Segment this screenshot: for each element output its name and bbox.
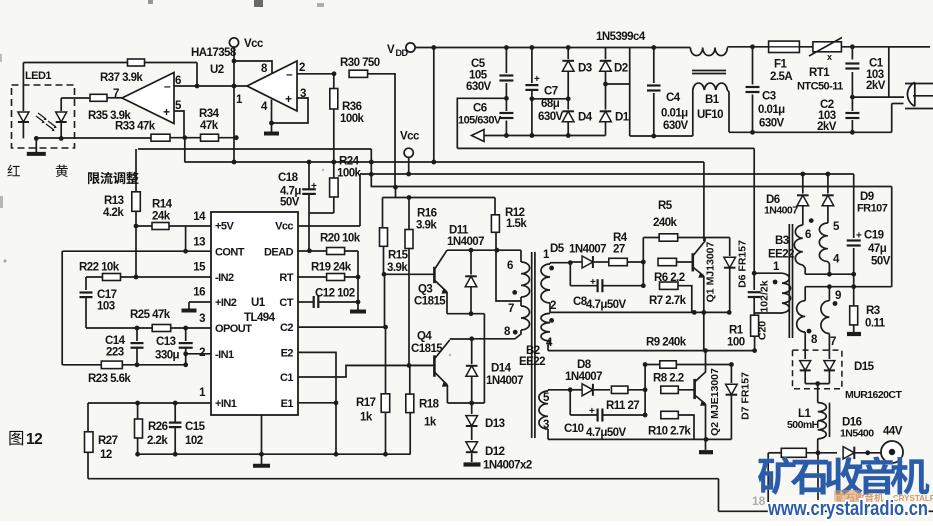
svg-text:C1: C1 [280,372,293,384]
svg-text:15: 15 [193,262,206,274]
svg-text:R24: R24 [339,156,360,168]
svg-text:1N4007: 1N4007 [764,205,798,217]
svg-text:UF10: UF10 [697,109,723,121]
svg-text:Q3: Q3 [418,284,432,296]
svg-text:U2: U2 [210,64,224,76]
svg-text:50V: 50V [871,256,891,268]
svg-text:1N4007: 1N4007 [565,371,602,383]
svg-text:F1: F1 [774,59,787,71]
svg-text:RT: RT [279,272,293,284]
svg-text:C18: C18 [278,172,299,184]
svg-text:EE22: EE22 [768,249,794,261]
svg-text:3: 3 [199,313,205,325]
svg-text:C2: C2 [280,322,293,334]
svg-text:12: 12 [26,431,42,448]
svg-text:68μ: 68μ [541,98,560,110]
svg-text:14: 14 [193,211,206,223]
svg-text:3: 3 [543,419,549,431]
svg-text:D9: D9 [860,191,874,203]
svg-text:C4: C4 [666,92,681,104]
svg-text:+: + [163,105,170,119]
svg-text:U1: U1 [251,297,266,309]
svg-text:500mH: 500mH [787,419,819,431]
svg-text:R4: R4 [613,232,628,244]
svg-text:R9 240k: R9 240k [646,337,687,349]
svg-text:C3: C3 [762,91,776,103]
svg-text:7: 7 [113,88,119,100]
svg-text:D2: D2 [614,63,628,75]
svg-text:Vcc: Vcc [400,131,420,143]
svg-text:C15: C15 [185,421,206,433]
svg-text:6: 6 [805,229,811,241]
svg-text:C1815: C1815 [411,343,443,355]
svg-text:44V: 44V [883,426,903,438]
svg-text:E2: E2 [281,347,294,359]
svg-text:R3: R3 [866,305,880,317]
svg-text:240k: 240k [653,217,678,229]
svg-text:R37 3.9k: R37 3.9k [100,72,143,84]
svg-text:-IN1: -IN1 [215,349,234,361]
svg-text:C1: C1 [869,58,884,70]
svg-text:0.01μ: 0.01μ [758,104,785,116]
svg-text:R34: R34 [199,108,220,120]
svg-text:D11: D11 [449,225,469,237]
svg-text:C6: C6 [473,103,487,115]
svg-text:R19 24k: R19 24k [311,262,352,274]
svg-text:D1: D1 [615,112,630,124]
svg-text:630V: 630V [466,81,492,93]
svg-text:-IN2: -IN2 [215,272,234,284]
svg-text:D3: D3 [578,63,592,75]
svg-text:R26: R26 [148,421,168,433]
svg-text:4.7μ50V: 4.7μ50V [586,299,627,311]
svg-text:C14: C14 [105,335,126,347]
svg-text:TL494: TL494 [244,312,276,324]
svg-text:D13: D13 [485,418,505,430]
svg-text:6: 6 [507,260,513,272]
svg-text:C5: C5 [471,58,486,70]
svg-text:Vcc: Vcc [275,221,293,233]
svg-text:D7 FR157: D7 FR157 [740,372,752,420]
svg-text:105/630V: 105/630V [458,115,502,127]
svg-text:C17: C17 [97,289,117,301]
svg-text:R17: R17 [356,397,376,409]
svg-text:1N5399c4: 1N5399c4 [596,31,646,43]
svg-text:+: + [534,74,540,85]
svg-text:R14: R14 [152,199,173,211]
svg-text:100k: 100k [337,168,362,180]
svg-text:D5: D5 [550,243,565,255]
svg-text:+IN1: +IN1 [215,398,237,410]
svg-text:3.9k: 3.9k [387,262,408,274]
svg-text:D6 FR157: D6 FR157 [737,240,749,288]
svg-text:C19: C19 [864,230,884,242]
svg-text:–: – [286,67,293,81]
svg-text:R27: R27 [98,435,118,447]
svg-text:1k: 1k [360,412,373,424]
svg-text:16: 16 [193,287,205,299]
svg-text:0.01μ: 0.01μ [661,108,688,120]
svg-text:47μ: 47μ [868,243,887,255]
svg-text:27: 27 [613,244,625,256]
svg-text:2: 2 [550,300,556,312]
svg-text:1N4007: 1N4007 [447,236,484,248]
svg-text:18: 18 [752,494,766,508]
svg-text:3.9k: 3.9k [416,220,437,232]
svg-text:D4: D4 [578,112,593,124]
svg-text:1N4007x2: 1N4007x2 [483,460,532,472]
svg-text:Vcc: Vcc [244,38,264,50]
svg-text:223: 223 [106,347,124,359]
svg-text:D15: D15 [854,361,875,373]
svg-text:4.7μ50V: 4.7μ50V [586,427,627,439]
svg-text:FR107: FR107 [857,203,888,215]
svg-text:DD: DD [396,48,409,58]
svg-text:B1: B1 [705,94,720,106]
svg-text:C12 102: C12 102 [315,288,355,300]
svg-text:R16: R16 [417,208,437,220]
svg-text:R8 2.2: R8 2.2 [653,373,684,385]
svg-text:CONT: CONT [215,246,245,258]
svg-text:103: 103 [97,301,115,313]
svg-text:C1815: C1815 [414,296,446,308]
svg-text:R23 5.6k: R23 5.6k [88,373,131,385]
svg-text:LED1: LED1 [25,70,51,82]
svg-text:102: 102 [185,435,203,447]
svg-text:7: 7 [508,303,514,315]
svg-text:EE22: EE22 [519,356,545,368]
svg-text:Q2 MJE13007: Q2 MJE13007 [709,368,721,436]
svg-text:R7 2.7k: R7 2.7k [649,295,687,307]
svg-text:4.2k: 4.2k [103,207,124,219]
svg-text:Q4: Q4 [417,331,432,343]
svg-text:C10: C10 [564,423,584,435]
svg-text:R33 47k: R33 47k [115,121,156,133]
svg-text:+: + [285,92,292,106]
svg-text:630V: 630V [759,118,785,130]
svg-text:Q1 MJ13007: Q1 MJ13007 [705,241,717,302]
svg-text:R18: R18 [419,399,440,411]
svg-text:+: + [856,231,862,242]
svg-text:R25 47k: R25 47k [130,309,171,321]
svg-text:12: 12 [100,449,112,461]
svg-text:13: 13 [193,237,205,249]
svg-text:V: V [387,44,395,56]
svg-text:+: + [589,406,595,417]
svg-text:C13: C13 [156,336,176,348]
svg-text:NTC50-11: NTC50-11 [797,81,843,93]
svg-text:50V: 50V [280,197,300,209]
svg-text:D14: D14 [491,363,512,375]
svg-text:630V: 630V [663,120,689,132]
svg-text:–: – [164,79,171,93]
svg-text:105: 105 [469,70,488,82]
svg-text:R20 10k: R20 10k [320,233,361,245]
svg-text:B3: B3 [775,235,789,247]
svg-text:1N4007: 1N4007 [569,244,606,256]
svg-text:www.crystalradio.cn: www.crystalradio.cn [767,497,928,520]
svg-text:R13: R13 [104,195,124,207]
svg-text:R11 27: R11 27 [606,400,639,412]
svg-text:DEAD: DEAD [264,246,294,258]
svg-text:HA17358: HA17358 [191,47,237,59]
svg-text:R5: R5 [658,200,673,212]
svg-text:R22 10k: R22 10k [79,262,120,274]
svg-text:+IN2: +IN2 [215,297,237,309]
svg-text:+5V: +5V [215,221,234,233]
svg-text:x: x [827,52,832,62]
svg-text:2.2k: 2.2k [147,435,168,447]
svg-text:2.5A: 2.5A [770,71,792,83]
svg-text:C7: C7 [544,86,558,98]
svg-text:D8: D8 [577,359,592,371]
svg-text:E1: E1 [281,398,294,410]
svg-text:+: + [590,277,596,288]
svg-text:2: 2 [299,62,305,74]
svg-text:100: 100 [727,337,745,349]
svg-text:630V: 630V [538,111,564,123]
svg-text:1N5400: 1N5400 [840,428,874,440]
svg-text:MUR1620CT: MUR1620CT [845,389,902,401]
svg-text:C20: C20 [757,321,769,340]
svg-text:2kV: 2kV [817,121,837,133]
svg-text:R10 2.7k: R10 2.7k [648,426,691,438]
svg-text:CT: CT [279,297,293,309]
svg-text:100k: 100k [340,113,365,125]
svg-text:102/2k: 102/2k [759,280,771,312]
svg-text:R1: R1 [729,325,744,337]
svg-text:330μ: 330μ [155,350,180,362]
svg-text:9: 9 [835,290,841,302]
svg-text:7: 7 [830,336,836,348]
svg-text:47k: 47k [200,120,219,132]
svg-text:OPOUT: OPOUT [215,323,252,335]
svg-text:R30 750: R30 750 [340,57,380,69]
svg-text:+: + [311,181,317,192]
svg-text:24k: 24k [152,211,171,223]
svg-text:0.11: 0.11 [865,318,886,330]
svg-text:2kV: 2kV [866,80,886,92]
svg-text:R15: R15 [388,250,409,262]
svg-text:1k: 1k [424,417,437,429]
svg-text:1N4007: 1N4007 [486,375,523,387]
svg-text:D12: D12 [485,446,505,458]
svg-text:R36: R36 [342,101,362,113]
svg-text:1.5k: 1.5k [506,218,527,230]
svg-text:RT1: RT1 [809,67,830,79]
